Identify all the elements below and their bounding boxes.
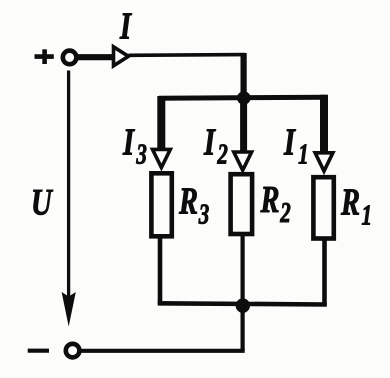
minus sign (- terminal polarity mark)	[28, 349, 49, 353]
svg-text:R1: R1	[340, 182, 372, 232]
resistor R3 box	[151, 173, 171, 236]
arrowhead I3 (open, down)	[153, 149, 171, 167]
voltage arrow U shaft	[67, 71, 70, 301]
resistor R2 box	[231, 174, 253, 234]
wire bottom horizontal to - terminal	[80, 349, 245, 353]
wire below R3	[158, 236, 163, 304]
wire top bus horizontal	[159, 97, 327, 98]
current arrow I (open arrowhead)	[114, 47, 129, 66]
node top junction	[237, 91, 251, 105]
svg-text:U: U	[31, 182, 54, 223]
svg-text:I3: I3	[122, 121, 147, 170]
resistor R1 box	[313, 177, 333, 238]
wire below R2	[241, 234, 245, 351]
wire top horizontal to corner	[129, 53, 246, 57]
arrowhead I2 (open, down)	[234, 152, 252, 170]
wire branch I2 vertical	[240, 98, 247, 152]
plus sign (+ terminal polarity mark)	[35, 49, 54, 64]
wire thick from + terminal to current arrow	[77, 54, 115, 60]
wire below R1	[322, 238, 327, 306]
terminal (+) circle	[63, 51, 77, 65]
wire feed vertical down to junction	[241, 53, 247, 98]
svg-text:R2: R2	[260, 179, 291, 229]
terminal (-) circle	[66, 344, 80, 358]
arrowhead I1 (open, down)	[315, 153, 333, 171]
wire branch I3 vertical	[157, 96, 165, 149]
svg-text:I1: I1	[283, 121, 308, 170]
svg-text:R3: R3	[178, 181, 209, 231]
wire branch I1 vertical	[320, 95, 328, 153]
svg-text:I2: I2	[203, 122, 228, 171]
node bottom junction	[236, 298, 250, 312]
wire bottom bus horizontal	[158, 303, 327, 304]
svg-text:I: I	[119, 6, 133, 48]
voltage arrow U head (filled)	[62, 292, 76, 327]
